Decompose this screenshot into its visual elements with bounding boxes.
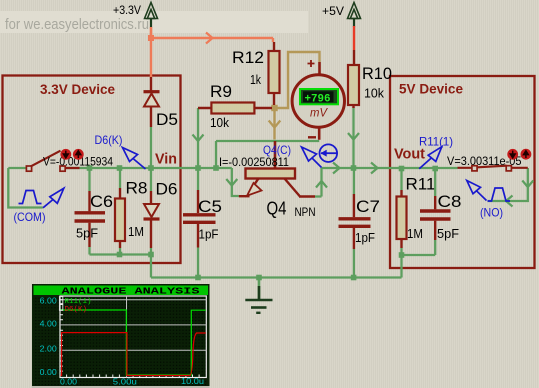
wire +3.3V salmon rail: [151, 27, 273, 42]
capacitor C8: [420, 168, 451, 240]
khaki wire R12 junction down to base node: [273, 108, 275, 140]
power symbol +5V: [348, 3, 361, 28]
switch SW-COM lever: [29, 151, 61, 168]
junction D6 bottom: [148, 252, 154, 258]
analysis window frame: [32, 284, 210, 388]
plot gridlines: [60, 296, 206, 378]
svg-text:10k: 10k: [210, 115, 229, 130]
junction C5 bottom: [195, 275, 201, 281]
capacitor C5: [183, 168, 216, 278]
svg-text:0.00: 0.00: [40, 368, 58, 377]
wire green right loop from NO switch: [488, 168, 528, 201]
svg-text:Q4: Q4: [267, 199, 287, 219]
junction C6 top: [87, 165, 93, 171]
flow arrow down on emitter wire: [226, 179, 237, 186]
svg-text:5.00u: 5.00u: [113, 378, 137, 387]
flow arrow on R10 wire: [348, 133, 359, 140]
junction R11/C8 bottom: [399, 252, 405, 258]
junction on 3.3V rail: [148, 35, 154, 41]
wire green bottom ground rail y=277.5: [151, 240, 435, 278]
svg-text:5V Device: 5V Device: [399, 81, 463, 97]
svg-text:R11(1): R11(1): [419, 135, 453, 149]
switch SW-NO stubs: [458, 167, 528, 169]
wire +5V red segment: [353, 26, 355, 50]
wire green R10 to rail: [352, 107, 354, 168]
switch SW-NO throw square: [506, 166, 511, 171]
toggle button up (left pair): [73, 149, 84, 160]
probe R11(1) arrow: [419, 147, 442, 169]
svg-text:C5: C5: [198, 197, 222, 216]
svg-text:+3.3V: +3.3V: [113, 3, 141, 17]
khaki junction at R12 bottom: [271, 105, 277, 111]
svg-text:D6(K): D6(K): [65, 306, 88, 314]
wire green mid node y=254.5 in 3.3V box: [90, 255, 152, 278]
wire green R9 to rail: [197, 108, 199, 168]
flow arrow right on rail before Vout: [371, 163, 378, 174]
voltmeter plus sign: [308, 60, 315, 67]
capacitor C6: [75, 168, 106, 255]
trace R11(1) green: [61, 310, 206, 375]
flow arrow on 3.3V rail: [206, 33, 213, 44]
svg-text:+5V: +5V: [322, 4, 344, 18]
svg-text:Q4(C): Q4(C): [263, 143, 291, 157]
svg-text:for we.easyelectronics.ru: for we.easyelectronics.ru: [5, 16, 149, 33]
wire green base feed y=141: [216, 141, 319, 168]
capacitor C7: [339, 168, 371, 278]
svg-text:C6: C6: [90, 192, 113, 211]
wire green from switch pole down to generator COM: [8, 168, 43, 208]
junction R9/C5 node: [195, 165, 201, 171]
legend marker bracket: [59, 297, 62, 311]
toggle button down (left pair): [60, 149, 71, 160]
svg-text:6.00: 6.00: [40, 296, 58, 305]
generator COM probe arrow: [43, 188, 64, 208]
plot axis ticks: [60, 300, 199, 378]
diode D6: [144, 168, 160, 255]
svg-text:3.3V Device: 3.3V Device: [40, 81, 115, 97]
svg-text:R10: R10: [362, 64, 392, 83]
5V Device box: [390, 76, 535, 268]
junction C8 node: [432, 166, 438, 172]
junction C7 bottom: [351, 275, 357, 281]
junction base-feed node: [213, 165, 219, 171]
svg-text:4.00: 4.00: [40, 319, 58, 328]
wire green main rail y=168 (switch to emitter corner): [8, 168, 239, 196]
voltmeter leads: [318, 62, 321, 140]
voltmeter U1 body: [292, 75, 344, 127]
generator COM pulse icon: [19, 191, 42, 204]
resistor R9 body: [198, 107, 272, 109]
3.3V Device box: [3, 76, 181, 264]
wire +5V maroon lead to R10: [353, 50, 355, 66]
current probe circle: [320, 144, 338, 162]
transistor Q4 body: [239, 169, 315, 197]
switch SW-NO lever: [478, 166, 507, 168]
generator NO pulse icon: [488, 188, 511, 201]
toggle button up (right pair): [521, 149, 532, 160]
svg-text:1M: 1M: [407, 226, 423, 241]
junction R10 node: [351, 165, 357, 171]
svg-text:0.00: 0.00: [60, 377, 78, 386]
flow arrow right on rail after collector: [333, 163, 340, 174]
toggle button down (right pair): [507, 149, 518, 160]
switch SW-COM stubs: [26, 167, 80, 169]
svg-text:D6(K): D6(K): [95, 133, 123, 147]
resistor R10 body: [352, 105, 354, 108]
trace D6(K) red: [61, 333, 206, 376]
switch SW-COM throw square: [60, 166, 65, 171]
resistor R12 body: [273, 42, 275, 105]
analysis window title bar: [34, 286, 209, 296]
svg-text:R8: R8: [126, 179, 148, 198]
junction D5/D6 node: [148, 165, 154, 171]
flow arrow on R9 wire: [193, 135, 204, 142]
generator NO probe arrow: [467, 181, 487, 201]
svg-text:+796: +796: [305, 93, 331, 105]
y-axis labels: [40, 296, 58, 377]
svg-text:2.00: 2.00: [40, 344, 58, 353]
svg-text:R11: R11: [406, 175, 436, 194]
svg-text:(COM): (COM): [14, 210, 46, 224]
svg-text:NPN: NPN: [295, 205, 316, 219]
junction R8 bottom: [117, 252, 123, 258]
svg-text:ANALOGUE ANALYSIS: ANALOGUE ANALYSIS: [62, 287, 201, 297]
watermark band: [0, 11, 308, 33]
flow arrow down on right loop: [522, 181, 533, 188]
switch SW-COM pole square: [26, 166, 31, 171]
khaki flow arrow down: [269, 121, 281, 128]
svg-text:mV: mV: [310, 106, 328, 120]
svg-text:Vin: Vin: [155, 151, 177, 168]
voltmeter display: [300, 89, 338, 104]
svg-text:1M: 1M: [128, 224, 144, 239]
probe D6(K) arrow: [123, 148, 146, 170]
junction R8 top: [117, 165, 123, 171]
probe Q4(C) arrow: [302, 147, 322, 168]
x-axis labels: [60, 377, 204, 387]
junction ground node: [256, 275, 262, 281]
wire green collector path: [315, 168, 458, 197]
svg-text:1k: 1k: [250, 72, 261, 87]
svg-text:10k: 10k: [364, 86, 384, 101]
diode D5: [144, 28, 160, 168]
resistor R11: [397, 168, 407, 255]
svg-text:5pF: 5pF: [437, 226, 459, 241]
svg-text:C7: C7: [356, 197, 380, 216]
svg-text:1pF: 1pF: [199, 227, 219, 242]
svg-text:D5: D5: [156, 110, 178, 129]
plot area: [33, 296, 208, 386]
transistor Q4 base lead: [274, 141, 277, 169]
switch SW-NO pole square: [472, 166, 477, 171]
svg-text:1pF: 1pF: [355, 230, 375, 245]
svg-text:R12: R12: [232, 48, 264, 67]
junction Vout/R11 node: [399, 166, 405, 172]
voltmeter minus sign: [308, 136, 316, 138]
svg-text:R9: R9: [210, 82, 232, 101]
flow arrow up on collector wire: [316, 181, 327, 188]
svg-text:D6: D6: [156, 180, 178, 199]
svg-text:I=-0.00250811: I=-0.00250811: [219, 155, 289, 169]
khaki wire R12 bottom to meter plus: [275, 52, 320, 108]
svg-text:C8: C8: [438, 192, 462, 211]
power symbol +3.3V: [145, 3, 158, 29]
flow arrow left on right loop: [506, 196, 513, 207]
resistor R8: [115, 168, 125, 255]
svg-text:10.0u: 10.0u: [181, 377, 204, 386]
svg-text:(NO): (NO): [480, 206, 503, 220]
ground symbol: [245, 280, 272, 313]
svg-text:5pF: 5pF: [76, 226, 98, 241]
